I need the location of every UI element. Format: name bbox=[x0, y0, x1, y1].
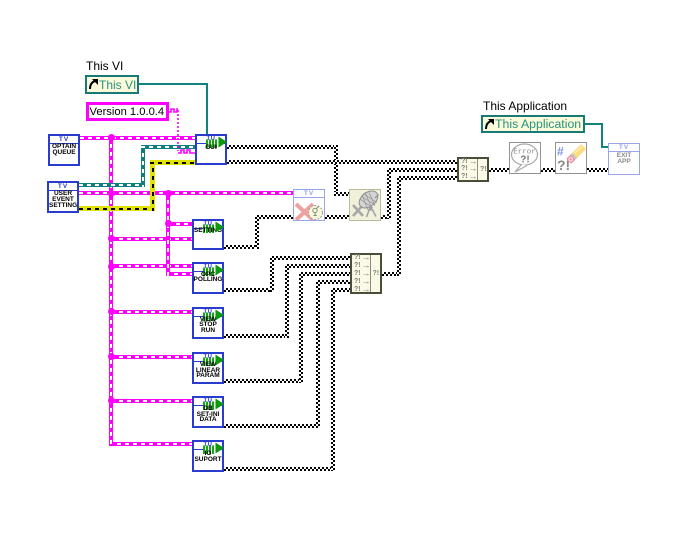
svg-text:?!: ?! bbox=[520, 155, 529, 166]
